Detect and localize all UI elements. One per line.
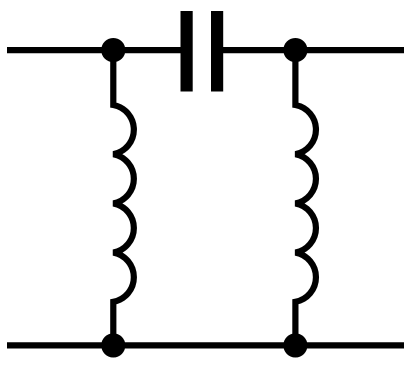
node B junction dot (top right) <box>283 38 307 62</box>
wire top rail left segment <box>7 47 183 53</box>
node D junction dot (bottom right) <box>283 333 307 357</box>
inductor L2 <box>295 50 316 345</box>
wire bottom rail <box>7 342 404 348</box>
wire top rail right segment <box>220 47 404 53</box>
capacitor C1 left plate <box>181 11 193 92</box>
capacitor C1 right plate <box>211 11 223 92</box>
inductor L1 <box>113 50 134 345</box>
node C junction dot (bottom left) <box>101 333 125 357</box>
node A junction dot (top left) <box>101 38 125 62</box>
